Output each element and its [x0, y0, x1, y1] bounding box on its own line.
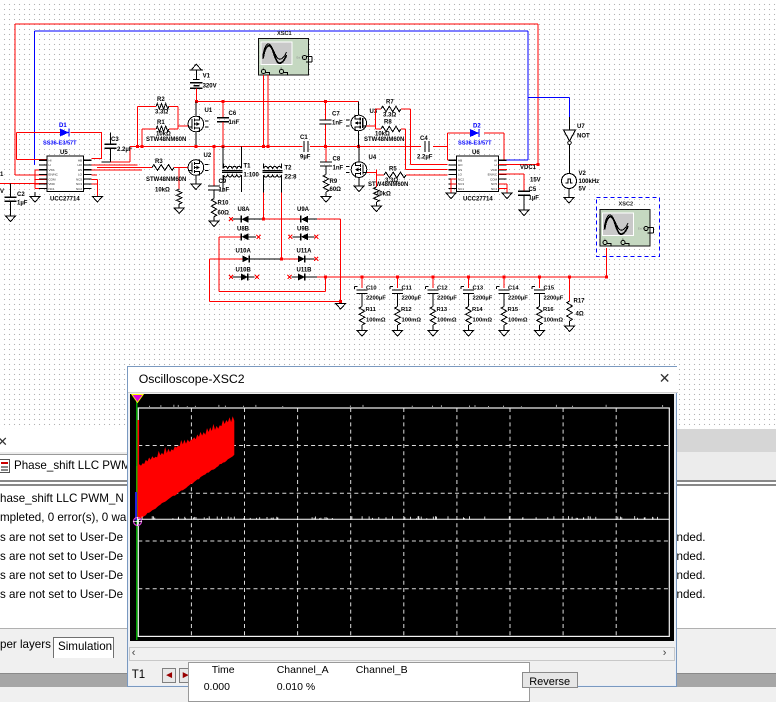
svg-text:NC2: NC2: [458, 177, 464, 181]
svg-text:5V: 5V: [579, 187, 586, 193]
svg-text:3.3Ω: 3.3Ω: [155, 110, 168, 116]
svg-text:R12: R12: [401, 307, 412, 313]
svg-text:HO: HO: [78, 163, 83, 167]
resistor R13 100mohm: [430, 307, 436, 326]
ground below R13: [432, 325, 434, 331]
capacitor C12 2200uF: [432, 277, 434, 288]
ground below U2: [191, 184, 201, 190]
svg-text:U9A: U9A: [297, 207, 310, 213]
svg-text:NC5: NC5: [76, 177, 82, 181]
resistor R1 10k: [156, 126, 169, 132]
capacitor C9 1nF snubber: [213, 147, 215, 186]
wire: U8B left loop (red): [219, 237, 325, 292]
svg-text:22:8: 22:8: [285, 175, 298, 181]
svg-text:100mΩ: 100mΩ: [473, 318, 493, 324]
svg-text:LO: LO: [78, 173, 83, 177]
svg-text:HI: HI: [494, 158, 497, 162]
oscilloscope XSC2 (selected): [596, 197, 659, 256]
resistor R15 100mohm: [501, 307, 507, 326]
svg-text:VDD: VDD: [491, 168, 498, 172]
svg-text:2200µF: 2200µF: [437, 296, 457, 302]
svg-text:C12: C12: [437, 286, 448, 292]
wire: U6 left lower pins to ground (red): [451, 179, 457, 193]
wire: U6 VDD pin to C5 (red): [499, 169, 524, 191]
ground below R15: [503, 325, 505, 331]
ground below V2: [564, 198, 574, 204]
svg-text:1nF: 1nF: [229, 120, 240, 126]
svg-text:R14: R14: [472, 307, 483, 313]
svg-text:100mΩ: 100mΩ: [544, 318, 564, 324]
resistor R11 100mohm: [359, 307, 365, 326]
wire: U10A left loop (red): [210, 259, 341, 302]
wire: R3 to U2 gate and R4 (red): [174, 168, 188, 190]
wire: top red supply net from U5 area to VDC1: [15, 24, 538, 175]
svg-text:EN/NC: EN/NC: [49, 173, 59, 177]
svg-text:Ext Trig: Ext Trig: [297, 56, 306, 60]
transformer T2 22:8: [264, 166, 282, 168]
wire: U5 right outputs to gate network (red): [92, 165, 142, 184]
svg-text:NC5: NC5: [491, 182, 497, 186]
resistor R8 10k: [381, 126, 401, 132]
Oscilloscope-XSC2 window: [127, 366, 678, 687]
svg-text:NC3: NC3: [458, 182, 464, 186]
resistor R16 100mohm: [537, 307, 543, 326]
svg-text:C10: C10: [366, 286, 377, 292]
bottom controls: [132, 669, 145, 681]
svg-text:NOT: NOT: [577, 134, 590, 140]
svg-text:1nF: 1nF: [333, 166, 344, 172]
wire: U2 gate rail (red): [97, 167, 152, 169]
svg-text:2200µF: 2200µF: [544, 296, 564, 302]
svg-text:1µF: 1µF: [17, 201, 28, 207]
capacitor C8 1nF: [325, 147, 327, 162]
wire: V2 to ground: [568, 189, 570, 198]
file icon: [0, 459, 10, 473]
clock source V2 100kHz 5V: [562, 174, 577, 189]
svg-text:100mΩ: 100mΩ: [366, 318, 386, 324]
diode D2: [470, 129, 479, 137]
bottom tab strip: [0, 628, 776, 658]
ground below R17: [569, 321, 571, 326]
svg-text:HS: HS: [78, 168, 82, 172]
svg-text:R16: R16: [543, 307, 554, 313]
svg-text:R7: R7: [386, 100, 394, 106]
schematic canvas with dot grid: [0, 0, 776, 429]
svg-text:2200µF: 2200µF: [473, 296, 493, 302]
svg-text:R8: R8: [384, 120, 392, 126]
svg-text:LI: LI: [494, 163, 497, 167]
messages: [0, 492, 124, 505]
svg-text:HB: HB: [458, 158, 462, 162]
svg-text:HI: HI: [49, 158, 52, 162]
transistor U4 STW48NM60N (mirrored): [358, 147, 360, 162]
svg-text:R1: R1: [157, 120, 165, 126]
ground below R11: [361, 325, 363, 331]
svg-text:R17: R17: [574, 299, 586, 305]
op-amp driver IC U5 UCC27714: [47, 156, 84, 192]
svg-text:U8A: U8A: [238, 207, 251, 213]
wire: U4 gate / R5 / R6 (red): [367, 170, 448, 187]
svg-text:C5: C5: [529, 187, 537, 193]
svg-text:2.2µF: 2.2µF: [117, 147, 133, 153]
resistor R12 100mohm: [395, 307, 401, 326]
svg-text:C6: C6: [229, 111, 237, 117]
ground below U5 right: [96, 180, 98, 197]
ground below U5 left: [34, 192, 36, 197]
capacitor C4 2.2uF: [425, 141, 429, 152]
capacitor C10 2200uF: [361, 277, 363, 288]
spreadsheet / results panel: [0, 429, 776, 687]
scope black display: [130, 394, 675, 641]
power source V1 320V battery: [191, 64, 201, 70]
svg-text:C7: C7: [332, 112, 340, 118]
wire: XSC1 probe A (red): [263, 75, 265, 147]
svg-text:V: V: [0, 189, 4, 195]
svg-text:1: 1: [0, 172, 4, 178]
svg-text:U11B: U11B: [297, 268, 313, 274]
wire: D2 bootstrap loop (red): [448, 133, 505, 160]
svg-text:A: A: [263, 67, 265, 71]
wire: R2/R1 to U1 gate (red): [169, 106, 188, 129]
wire: V1 to bridge top rail (red): [196, 88, 358, 101]
svg-text:10kΩ: 10kΩ: [155, 188, 170, 194]
svg-text:HO: HO: [458, 163, 463, 167]
svg-text:R15: R15: [508, 307, 519, 313]
svg-text:EN/NC: EN/NC: [488, 173, 498, 177]
svg-text:2200µF: 2200µF: [508, 296, 528, 302]
ground below U6 right: [502, 193, 512, 199]
svg-text:2200µF: 2200µF: [366, 296, 386, 302]
svg-text:HS: HS: [458, 168, 462, 172]
svg-text:D1: D1: [59, 123, 67, 129]
svg-text:SS36-E3/57T: SS36-E3/57T: [458, 141, 492, 147]
wire: C3 to R-loop (red): [111, 147, 131, 162]
svg-text:U6: U6: [472, 150, 480, 156]
svg-text:U4: U4: [369, 155, 377, 161]
wire: T2 secondary to rectifier (red): [263, 180, 265, 193]
svg-text:V1: V1: [203, 74, 211, 80]
wire: D1 bootstrap loop (red): [17, 133, 102, 160]
svg-text:320V: 320V: [203, 84, 217, 90]
capacitor C1 9uF resonant: [304, 141, 308, 152]
svg-text:SS36-E3/57T: SS36-E3/57T: [43, 141, 77, 147]
wire: U1 drain/source stubs: [195, 102, 197, 147]
svg-text:VDD: VDD: [49, 182, 56, 186]
status bar: [0, 673, 776, 687]
svg-text:60Ω: 60Ω: [218, 211, 230, 217]
svg-text:STW48NM60N: STW48NM60N: [146, 137, 186, 143]
svg-text:C13: C13: [473, 286, 484, 292]
svg-text:U3: U3: [370, 109, 378, 115]
wire: output bus (red): [317, 276, 607, 278]
capacitor C11 2200uF: [397, 277, 399, 288]
svg-text:LI: LI: [49, 163, 52, 167]
capacitor C5 1uF: [518, 191, 530, 195]
svg-text:9µF: 9µF: [300, 155, 311, 161]
svg-text:C3: C3: [111, 137, 119, 143]
svg-text:C8: C8: [333, 157, 341, 163]
wire: U3 gate to R7/R8 loop (red): [367, 109, 382, 129]
svg-text:VDC1: VDC1: [520, 165, 537, 171]
svg-text:T2: T2: [285, 166, 293, 172]
svg-text:R2: R2: [157, 97, 165, 103]
wire: R2/R1 gate loop left (red): [138, 106, 157, 146]
svg-text:NC3: NC3: [76, 182, 82, 186]
svg-text:HB: HB: [78, 158, 82, 162]
svg-text:C14: C14: [508, 286, 519, 292]
svg-text:NC1: NC1: [458, 187, 464, 191]
svg-text:U1: U1: [205, 108, 213, 114]
svg-text:R13: R13: [437, 307, 448, 313]
svg-text:R9: R9: [330, 179, 338, 185]
svg-text:1µF: 1µF: [529, 196, 540, 202]
ground below R16: [539, 325, 541, 331]
svg-text:T1: T1: [244, 164, 252, 170]
svg-text:C4: C4: [420, 136, 428, 142]
wire: NOT output to V2: [569, 145, 571, 174]
svg-text:100mΩ: 100mΩ: [402, 318, 422, 324]
svg-text:LO: LO: [458, 173, 463, 177]
wire: switch-node rail (red, through T1/T2 primaries and C1): [130, 146, 448, 148]
ground below R12: [397, 325, 399, 331]
wire: row C junction to U11A (red): [282, 258, 298, 260]
svg-text:U8B: U8B: [237, 227, 250, 233]
wire: XSC2 probe to output bus (red): [606, 248, 608, 278]
resistor R6 10k: [374, 187, 380, 202]
wire: U2 source to ground: [195, 175, 197, 184]
inverter U7 NOT gate: [569, 117, 571, 130]
ground below R10: [213, 217, 215, 221]
svg-text:STW48NM60N: STW48NM60N: [146, 177, 186, 183]
svg-text:Ext Trig: Ext Trig: [638, 227, 647, 231]
svg-text:100kHz: 100kHz: [579, 179, 600, 185]
ground below R4: [178, 204, 180, 208]
wire: top blue net (U5 LI input to U6 and NOT gate): [35, 31, 570, 165]
resistor R3 3.3ohm: [152, 165, 174, 171]
wire: U4 source to ground: [358, 177, 360, 186]
svg-text:VSS: VSS: [49, 168, 55, 172]
svg-text:1nF: 1nF: [219, 188, 230, 194]
transistor U1 STW48NM60N: [188, 116, 204, 132]
ground below R9: [325, 192, 327, 197]
svg-text:U10B: U10B: [236, 268, 252, 274]
svg-text:U7: U7: [577, 124, 585, 130]
resistor R5 3.3ohm: [384, 172, 406, 178]
svg-text:U10A: U10A: [236, 249, 252, 255]
svg-text:R5: R5: [389, 167, 397, 173]
ground below U6 left: [446, 193, 456, 199]
driver IC U6 UCC27714: [457, 156, 499, 192]
capacitor C7 1nF: [325, 102, 327, 120]
capacitor C3: [110, 133, 112, 145]
svg-text:U5: U5: [60, 150, 68, 156]
capacitor C14 2200uF: [503, 277, 505, 288]
wire: row A junction to U9A (red): [264, 218, 301, 220]
diode D1: [60, 129, 69, 137]
svg-text:60Ω: 60Ω: [330, 187, 342, 193]
wire: U6 right lower pins to ground (red): [499, 184, 507, 193]
ground on lower loop: [340, 301, 342, 303]
transformer T1 1:100: [223, 166, 241, 168]
svg-text:XSC2: XSC2: [619, 202, 634, 208]
svg-text:B: B: [281, 67, 283, 71]
svg-text:XSC1: XSC1: [277, 31, 292, 37]
resistor R14 100mohm: [466, 307, 472, 326]
svg-text:3.3Ω: 3.3Ω: [383, 113, 396, 119]
svg-text:U9B: U9B: [297, 227, 310, 233]
svg-text:NC2: NC2: [76, 187, 82, 191]
active design tab: [0, 454, 300, 481]
resistor R7 3.3ohm: [381, 106, 401, 112]
ground below R14: [468, 325, 470, 331]
svg-text:10kΩ: 10kΩ: [375, 131, 390, 137]
svg-text:C2: C2: [17, 192, 25, 198]
svg-text:STW48NM60N: STW48NM60N: [364, 137, 404, 143]
svg-text:C15: C15: [544, 286, 555, 292]
resistor R2 3.3ohm: [156, 104, 169, 110]
svg-text:U2: U2: [204, 153, 212, 159]
svg-text:4Ω: 4Ω: [576, 312, 584, 318]
ground below R6: [375, 202, 377, 206]
resistor R10 60ohm: [211, 199, 217, 217]
capacitor C6 1nF: [222, 102, 224, 118]
svg-text:C11: C11: [402, 286, 413, 292]
horizontal scrollbar: [129, 647, 675, 661]
svg-text:1:100: 1:100: [244, 173, 260, 179]
svg-text:COM: COM: [490, 177, 498, 181]
svg-text:3.3Ω: 3.3Ω: [385, 178, 398, 184]
svg-text:100mΩ: 100mΩ: [437, 318, 457, 324]
wire: U9A to lower-left loop (red): [317, 219, 341, 301]
wire: XSC1 probe B (red): [267, 75, 269, 147]
resistor R9 60ohm: [323, 175, 329, 193]
svg-text:15V: 15V: [530, 178, 541, 184]
resistor R17 4ohm load: [569, 277, 571, 301]
svg-text:NC1: NC1: [49, 187, 55, 191]
svg-text:NC4: NC4: [491, 187, 497, 191]
svg-text:10kΩ: 10kΩ: [376, 192, 391, 198]
svg-text:2200µF: 2200µF: [402, 296, 422, 302]
svg-text:B: B: [622, 238, 624, 242]
svg-text:UCC27714: UCC27714: [463, 197, 493, 203]
svg-text:D2: D2: [473, 124, 481, 130]
svg-text:UCC27714: UCC27714: [50, 197, 80, 203]
svg-text:1nF: 1nF: [332, 121, 343, 127]
svg-text:100mΩ: 100mΩ: [508, 318, 528, 324]
svg-text:C1: C1: [300, 135, 308, 141]
ground below U4: [354, 186, 364, 192]
capacitor C15 2200uF: [539, 277, 541, 288]
svg-text:R11: R11: [366, 307, 377, 313]
oscilloscope XSC1: [259, 39, 309, 76]
ground below C5: [519, 210, 529, 216]
wire: VDC1 net (red): [499, 164, 538, 166]
resistor R4 10k: [176, 189, 182, 204]
svg-text:V2: V2: [579, 171, 587, 177]
transistor U3 STW48NM60N (mirrored): [358, 102, 360, 116]
svg-text:2.2µF: 2.2µF: [417, 155, 433, 161]
svg-text:COM: COM: [49, 177, 57, 181]
svg-text:U11A: U11A: [297, 249, 313, 255]
transistor U2 STW48NM60N: [188, 160, 204, 176]
ground below C2: [6, 216, 16, 222]
svg-text:R3: R3: [155, 159, 163, 165]
capacitor C13 2200uF: [468, 277, 470, 288]
wire: U5 left pin feeds (red): [0, 159, 47, 188]
svg-text:A: A: [604, 238, 606, 242]
svg-text:R10: R10: [218, 201, 230, 207]
wire: R7/R8 to U6 driver (red): [401, 109, 448, 169]
capacitor C2: [10, 183, 12, 197]
